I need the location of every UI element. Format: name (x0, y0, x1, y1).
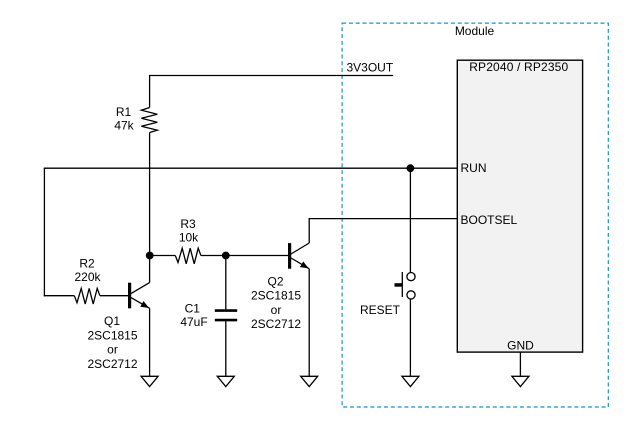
wire net BOOTSEL horizontal (309, 218, 458, 220)
svg-text:R2: R2 (79, 256, 95, 270)
wire GND pin of module (519, 352, 521, 376)
svg-text:or: or (107, 343, 118, 357)
svg-text:47uF: 47uF (180, 315, 207, 329)
wire C1 to ground (225, 321, 227, 376)
resistor R1 (141, 108, 157, 133)
wire to R2 left lead (44, 295, 75, 297)
svg-text:220k: 220k (74, 270, 101, 284)
svg-text:R1: R1 (116, 105, 132, 119)
svg-text:R3: R3 (180, 217, 196, 231)
svg-text:2SC2712: 2SC2712 (251, 317, 301, 331)
wire 3V3OUT down to R1 (149, 75, 151, 108)
transistor Q1 (128, 283, 151, 311)
wire R1 to Q1 collector node (149, 133, 151, 256)
svg-text:RUN: RUN (461, 161, 487, 175)
resistor R2 (74, 288, 100, 304)
wire Q2 emitter to ground (308, 269, 310, 377)
wire Q2 collector vertical (308, 218, 310, 243)
node junction R3 / C1 / Q2 base (222, 252, 230, 260)
svg-text:2SC1815: 2SC1815 (251, 289, 301, 303)
ground symbol at RESET (402, 376, 419, 386)
ground symbol at Q1 (141, 376, 158, 386)
wire Q1 collector vertical (149, 256, 151, 283)
svg-text:10k: 10k (179, 231, 199, 245)
wire R2 to Q1 base (100, 295, 128, 297)
module U1 RP2040/RP2350 body (457, 60, 582, 352)
wire node to Q2 base (226, 255, 288, 257)
svg-text:Module: Module (455, 24, 495, 38)
transistor Q2 (288, 243, 310, 271)
svg-text:RP2040 / RP2350: RP2040 / RP2350 (469, 60, 568, 74)
wire node down to C1 (225, 256, 227, 310)
svg-text:RESET: RESET (360, 303, 401, 317)
wire RESET switch to ground (409, 299, 411, 376)
module boundary dashed box (342, 23, 608, 407)
wire RUN junction down to RESET switch (409, 168, 411, 272)
capacitor C1 (215, 311, 237, 321)
svg-text:GND: GND (507, 339, 534, 353)
svg-text:2SC1815: 2SC1815 (87, 328, 137, 342)
pushbutton RESET (395, 272, 416, 299)
node junction Q1 collector / R3 (146, 252, 154, 260)
svg-text:or: or (271, 303, 282, 317)
ground symbol at C1 (217, 376, 234, 386)
svg-text:Q1: Q1 (104, 314, 120, 328)
wire net RUN horizontal (44, 167, 458, 169)
svg-text:2SC2712: 2SC2712 (87, 357, 137, 371)
ground symbol at module GND (512, 376, 529, 386)
wire net 3V3OUT horizontal (149, 75, 393, 77)
svg-text:3V3OUT: 3V3OUT (347, 61, 394, 75)
wire RUN left vertical drop (43, 168, 45, 296)
wire R3 right lead to node (201, 255, 226, 257)
svg-text:BOOTSEL: BOOTSEL (461, 213, 518, 227)
wire Q1 emitter to ground (149, 308, 151, 376)
wire R3 left lead (150, 255, 176, 257)
svg-text:47k: 47k (114, 119, 134, 133)
svg-text:Q2: Q2 (267, 275, 283, 289)
ground symbol at Q2 (301, 376, 318, 386)
svg-text:C1: C1 (185, 302, 201, 316)
junction RUN / RESET (407, 164, 415, 172)
resistor R3 (175, 248, 201, 264)
